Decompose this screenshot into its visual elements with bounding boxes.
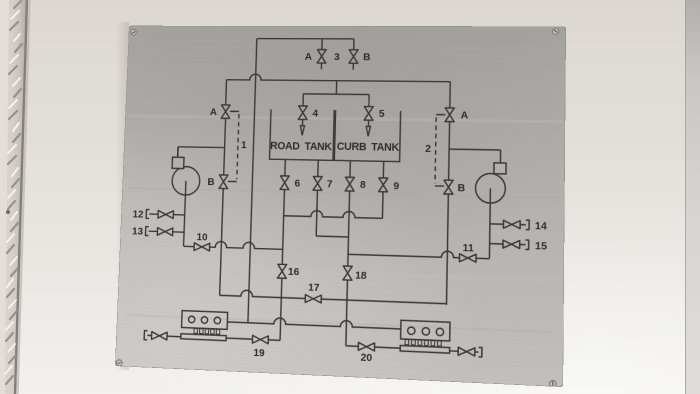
svg-text:13: 13 [132,226,143,238]
svg-text:14: 14 [535,220,548,233]
svg-text:A: A [210,107,218,119]
svg-text:9: 9 [393,181,399,193]
svg-text:11: 11 [463,242,475,255]
svg-text:3: 3 [334,52,340,64]
svg-text:4: 4 [312,108,319,120]
svg-text:1: 1 [241,140,248,152]
svg-text:12: 12 [132,209,143,221]
svg-text:10: 10 [196,232,207,244]
svg-text:B: B [363,52,371,64]
svg-text:17: 17 [308,282,320,294]
svg-text:5: 5 [379,108,386,120]
svg-text:ROAD TANK: ROAD TANK [270,141,333,154]
svg-text:B: B [207,176,215,188]
svg-text:6: 6 [294,178,300,190]
svg-text:18: 18 [355,270,367,282]
svg-text:8: 8 [360,180,367,192]
svg-text:2: 2 [425,143,431,155]
svg-text:A: A [461,110,469,122]
svg-text:19: 19 [253,347,265,360]
svg-text:A: A [305,51,313,63]
svg-text:7: 7 [327,178,333,190]
svg-text:15: 15 [535,240,548,253]
svg-text:20: 20 [360,352,372,365]
svg-text:B: B [458,182,466,194]
svg-text:16: 16 [288,266,300,278]
svg-text:CURB TANK: CURB TANK [337,141,401,154]
